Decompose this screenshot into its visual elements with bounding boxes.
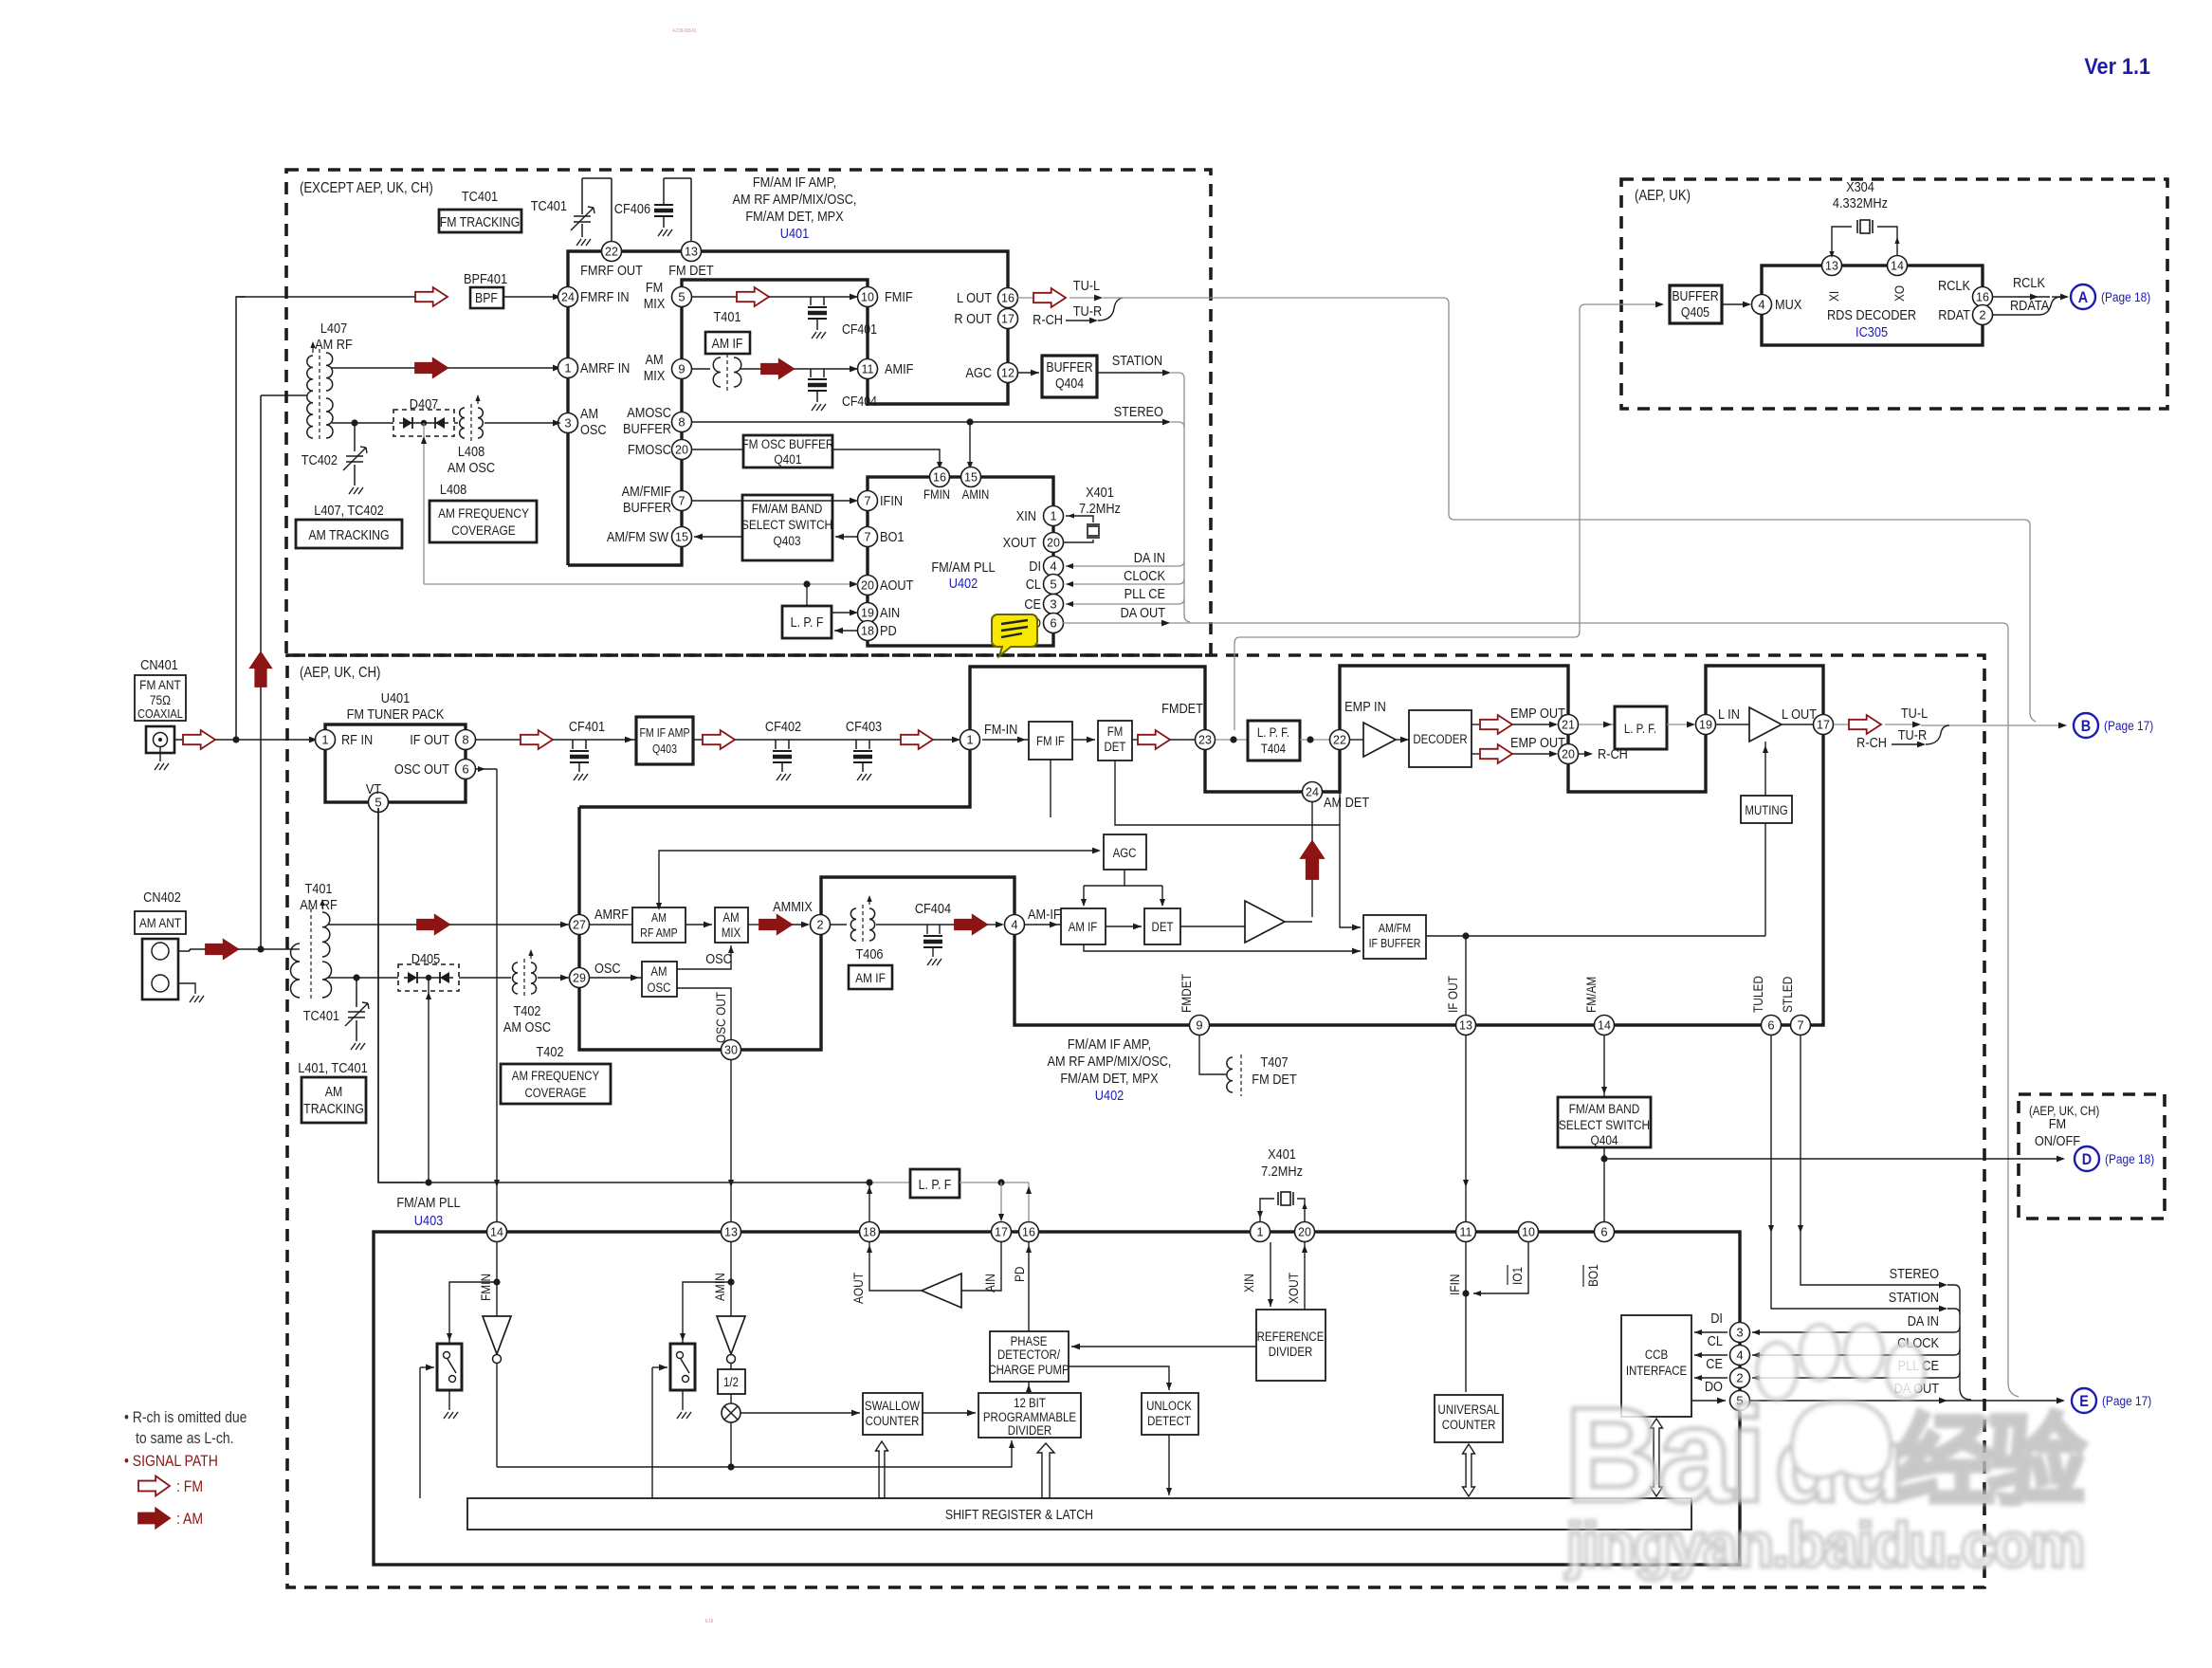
wire IFIN	[691, 500, 856, 502]
svg-text:BUFFER: BUFFER	[1672, 288, 1719, 303]
svg-text:4.332MHz: 4.332MHz	[1833, 194, 1888, 211]
svg-text:IFIN: IFIN	[880, 492, 903, 508]
svg-text:FM/AM PLL: FM/AM PLL	[931, 559, 995, 575]
pin 20 XOUT	[1295, 1222, 1315, 1242]
svg-text:REFERENCE: REFERENCE	[1257, 1329, 1325, 1344]
svg-text:R-CH: R-CH	[1856, 734, 1887, 750]
svg-text:X401: X401	[1268, 1146, 1296, 1162]
svg-text:XI: XI	[1826, 291, 1841, 302]
svg-text:FMIF: FMIF	[885, 288, 913, 304]
pin 17 AIN	[992, 1222, 1012, 1242]
svg-text:PROGRAMMABLE: PROGRAMMABLE	[983, 1410, 1076, 1424]
FMIN internal wire	[496, 1242, 498, 1316]
wire OSC OUT to PLL AMIN	[730, 1060, 732, 1221]
svg-text:Ver 1.1: Ver 1.1	[2084, 53, 2150, 79]
L OUT amp triangle	[1716, 724, 1749, 725]
shift register up arrow to swallow	[876, 1441, 888, 1498]
svg-text:FM/AM BAND: FM/AM BAND	[1569, 1101, 1640, 1116]
svg-text:XO: XO	[1892, 285, 1907, 302]
FM TRACKING box	[439, 210, 521, 232]
FM DET box	[1072, 739, 1095, 741]
STEREO wire top	[691, 421, 1168, 423]
svg-text:20: 20	[675, 444, 688, 457]
AM arrow to AMIF	[740, 368, 761, 370]
pin 4 DI	[1044, 557, 1064, 577]
svg-text:CF404: CF404	[915, 900, 951, 916]
svg-text:U402: U402	[1095, 1087, 1124, 1103]
wire L407 osc winding to D407	[332, 422, 393, 424]
svg-text:AOUT: AOUT	[850, 1273, 866, 1304]
AM IF box label T406	[849, 965, 892, 989]
svg-text:16: 16	[933, 471, 946, 485]
wire AM antenna entry top	[261, 394, 307, 396]
wire Q405 to MUX	[1722, 303, 1749, 305]
svg-text:12: 12	[1001, 367, 1015, 380]
AM MIX box	[686, 924, 712, 926]
DA OUT drop to E	[2002, 623, 2019, 1397]
pin 13 XI	[1822, 256, 1842, 276]
IO1 wire	[1473, 1242, 1528, 1293]
svg-text:AM: AM	[722, 910, 739, 925]
AM/FM IF BUFFER box	[1050, 760, 1051, 817]
svg-text:CF404: CF404	[842, 394, 877, 409]
svg-text:E: E	[2079, 1393, 2089, 1410]
svg-text:TU-L: TU-L	[1901, 705, 1929, 721]
svg-text:AMRF IN: AMRF IN	[580, 359, 630, 376]
long TU-L wire to B	[1103, 298, 2036, 722]
trimmer TC401 mid	[356, 978, 357, 1007]
pin 14 FMIN	[487, 1222, 507, 1242]
wire Q401 to FMIN	[832, 449, 940, 467]
buffer output to muting	[1426, 935, 1765, 937]
note icon yellow	[992, 614, 1037, 656]
svg-text:FM/AM IF AMP,: FM/AM IF AMP,	[753, 174, 836, 190]
svg-text:7.2MHz: 7.2MHz	[1079, 500, 1121, 516]
pin 15 AMIN top	[961, 467, 981, 487]
SHIFT REGISTER AND LATCH bar	[467, 1498, 1691, 1530]
pin 24 AM DET	[1303, 782, 1323, 802]
svg-text:AOUT: AOUT	[880, 577, 914, 593]
inverter 2	[717, 1316, 745, 1354]
svg-text:BO1: BO1	[1585, 1264, 1600, 1287]
FM arrow TU-L top	[1017, 297, 1033, 299]
svg-text:CL: CL	[1708, 1332, 1724, 1348]
svg-text:20: 20	[861, 579, 874, 593]
svg-text:FM: FM	[1107, 724, 1124, 739]
svg-text:DA IN: DA IN	[1134, 549, 1165, 565]
pin 4 AM-IF	[1005, 915, 1025, 935]
svg-text:11: 11	[1460, 1226, 1472, 1239]
pin 5 CL	[1044, 575, 1064, 595]
svg-text:RCLK: RCLK	[2013, 274, 2046, 290]
svg-text:IF BUFFER: IF BUFFER	[1369, 937, 1421, 950]
pin 7 STLED	[1791, 1016, 1811, 1036]
pin 23 FMDET	[1196, 730, 1216, 750]
svg-text:T402: T402	[537, 1043, 564, 1059]
svg-text:OSC: OSC	[594, 960, 621, 976]
svg-text:(AEP, UK): (AEP, UK)	[1635, 188, 1691, 204]
tuning voltage rail mid	[378, 1182, 869, 1183]
svg-text:TU-R: TU-R	[1898, 726, 1927, 742]
T407 FM DET coil	[1199, 1036, 1226, 1074]
svg-text:10: 10	[861, 291, 874, 304]
svg-text:7: 7	[864, 530, 870, 544]
pin 1 XIN	[1044, 506, 1064, 526]
capacitor CF406	[663, 178, 665, 204]
pin 17 L OUT	[1814, 715, 1834, 735]
svg-text:AM-IF: AM-IF	[1028, 906, 1061, 922]
svg-text:OSC OUT: OSC OUT	[713, 992, 728, 1043]
svg-text:TU-L: TU-L	[1073, 277, 1101, 293]
svg-text:7: 7	[1797, 1018, 1803, 1033]
pin 6 TULED	[1762, 1016, 1782, 1036]
svg-text:AM FREQUENCY: AM FREQUENCY	[438, 505, 529, 521]
STEREO wire mid	[1801, 1036, 1945, 1285]
svg-text:CF401: CF401	[569, 718, 605, 734]
svg-text:4: 4	[1758, 298, 1764, 312]
svg-text:L. P. F: L. P. F	[791, 614, 824, 630]
svg-text:COAXIAL: COAXIAL	[137, 706, 183, 721]
svg-text:T407: T407	[1261, 1054, 1289, 1070]
svg-text:15: 15	[964, 471, 978, 485]
svg-text:8: 8	[462, 733, 468, 747]
svg-text:AIN: AIN	[982, 1274, 997, 1292]
AM DET wire with up arrow	[1311, 802, 1313, 917]
svg-text:U401: U401	[381, 689, 411, 706]
svg-text:AM IF: AM IF	[1069, 920, 1098, 934]
svg-text:AMMIX: AMMIX	[773, 898, 813, 914]
svg-text:Bai: Bai	[1564, 1380, 1763, 1531]
connector E (Page 17)	[2072, 1388, 2096, 1413]
signal trunk vertical mid	[1959, 1291, 1961, 1388]
svg-text:PHASE: PHASE	[1011, 1334, 1048, 1348]
svg-text:AM/FM: AM/FM	[1379, 922, 1411, 935]
SWALLOW COUNTER box	[863, 1393, 923, 1435]
svg-text:L. P. F: L. P. F	[919, 1177, 952, 1192]
svg-text:L401, TC401: L401, TC401	[298, 1059, 368, 1075]
svg-text:5: 5	[1050, 577, 1056, 592]
svg-text:MIX: MIX	[644, 295, 666, 311]
IF OUT drop	[1465, 936, 1467, 1015]
AM FREQUENCY COVERAGE box mid	[501, 1064, 611, 1104]
ref divider to phase det	[1071, 1346, 1256, 1347]
svg-text:AM RF: AM RF	[315, 336, 353, 352]
svg-text:MIX: MIX	[722, 926, 741, 940]
svg-text:经验: 经验	[1896, 1407, 2086, 1517]
svg-text:FMDET: FMDET	[1179, 974, 1194, 1013]
svg-text:AMOSC: AMOSC	[627, 404, 671, 420]
svg-text:FMIN: FMIN	[478, 1274, 493, 1301]
U403 PLL block	[374, 1232, 1740, 1565]
svg-text:D: D	[2082, 1151, 2092, 1168]
region box (EXCEPT AEP, UK, CH)	[286, 170, 1211, 655]
svg-text:FM/AM PLL: FM/AM PLL	[396, 1194, 460, 1210]
FM signal arrow	[415, 287, 448, 306]
wire OSC OUT to PLL FMIN	[475, 768, 497, 770]
FM OSC BUFFER Q401 box	[743, 435, 832, 467]
legend FM arrow	[138, 1476, 170, 1496]
baidu watermark	[1564, 1325, 2086, 1580]
svg-text:TC401: TC401	[531, 197, 567, 213]
pin 6 OSC OUT	[456, 760, 476, 779]
pin 3 CE	[1044, 595, 1064, 614]
svg-text:BUFFER: BUFFER	[1046, 359, 1093, 375]
AGC input wire	[659, 851, 1098, 907]
svg-text:17: 17	[995, 1226, 1008, 1239]
U402 middle IC outline	[579, 666, 1823, 1050]
svg-text:VT: VT	[366, 780, 382, 797]
svg-text:(Page 18): (Page 18)	[2101, 289, 2150, 304]
wire AMIN drop	[969, 422, 971, 467]
pin 19 AIN	[858, 603, 878, 623]
L.P.F box top	[806, 584, 808, 606]
DECODER box	[1409, 710, 1472, 767]
svg-text:U403: U403	[414, 1212, 444, 1228]
svg-text:CF402: CF402	[765, 718, 801, 734]
FM arrow into FM-IN	[901, 730, 933, 749]
LPF to AIN	[832, 612, 856, 614]
svg-text:FM IF AMP: FM IF AMP	[639, 726, 689, 740]
svg-text:5: 5	[375, 796, 381, 810]
svg-text:7: 7	[678, 494, 685, 508]
phase det to unlock detect	[1069, 1366, 1169, 1390]
svg-text:12 BIT: 12 BIT	[1014, 1396, 1046, 1410]
svg-text:Q403: Q403	[652, 742, 677, 756]
svg-text:R OUT: R OUT	[954, 310, 992, 326]
pin 6 BO1	[1595, 1222, 1615, 1242]
UNIVERSAL COUNTER box	[1435, 1395, 1503, 1442]
pin 16 L OUT	[998, 288, 1018, 308]
wire T401 to AMRF 27	[328, 924, 417, 926]
svg-text:DIVIDER: DIVIDER	[1269, 1345, 1312, 1359]
PD to LPF	[834, 630, 858, 632]
AM OSC box	[590, 977, 642, 979]
pin 13 AMIN	[722, 1222, 741, 1242]
svg-text:1: 1	[966, 733, 973, 747]
pin 7 AM/FMIF BUFFER	[672, 491, 692, 511]
wire to connector B	[1921, 724, 2065, 726]
svg-text:to same as L-ch.: to same as L-ch.	[136, 1430, 234, 1447]
trimmer TC401 top	[581, 178, 583, 214]
wire divider chain	[497, 1440, 1012, 1467]
pin 1 XIN	[1251, 1222, 1271, 1242]
svg-text:FM IF: FM IF	[1036, 734, 1065, 748]
svg-text:DI: DI	[1029, 558, 1041, 574]
svg-text:14: 14	[490, 1226, 503, 1239]
pin 16 RCLK	[1973, 287, 1993, 307]
AM RF AMP box	[590, 924, 632, 926]
svg-text:AGC: AGC	[1113, 846, 1137, 860]
svg-text:MUTING: MUTING	[1745, 803, 1787, 817]
svg-text:TULED: TULED	[1750, 976, 1765, 1013]
switch S2	[683, 1282, 731, 1344]
svg-text:FMRF IN: FMRF IN	[580, 288, 630, 304]
svg-text:AMIF: AMIF	[885, 360, 913, 376]
AM arrow into 27	[417, 915, 449, 934]
svg-text:T401: T401	[714, 308, 741, 324]
svg-text:DA IN: DA IN	[1908, 1312, 1939, 1329]
svg-text:TU-R: TU-R	[1073, 302, 1102, 319]
AM FREQUENCY COVERAGE box top	[430, 501, 537, 542]
svg-text:TC401: TC401	[303, 1007, 339, 1023]
svg-text:COUNTER: COUNTER	[1442, 1418, 1496, 1432]
pin 13 IF OUT	[1456, 1016, 1476, 1036]
svg-text:FMRF OUT: FMRF OUT	[580, 262, 643, 278]
FM IF AMP Q403 box mid	[636, 717, 693, 764]
svg-text:AM OSC: AM OSC	[503, 1018, 551, 1035]
pin 1 AMRF IN	[558, 358, 578, 378]
svg-text:ON/OFF: ON/OFF	[2035, 1132, 2080, 1148]
svg-text:OSC OUT: OSC OUT	[394, 761, 449, 777]
svg-text:4-239-028-01: 4-239-028-01	[672, 28, 697, 33]
svg-text:SWALLOW: SWALLOW	[865, 1399, 920, 1413]
svg-text:T402: T402	[513, 1002, 540, 1018]
wire LPF T404 to 22	[1300, 739, 1329, 741]
PHASE DETECTOR CHARGE PUMP box	[990, 1331, 1069, 1382]
svg-text:STEREO: STEREO	[1890, 1265, 1940, 1281]
svg-text:X401: X401	[1086, 484, 1114, 500]
svg-text:8: 8	[678, 415, 685, 430]
svg-text:CN402: CN402	[143, 889, 181, 905]
pin 22	[1330, 730, 1350, 750]
pin 11 IFIN	[1456, 1222, 1476, 1242]
FM arrow mid antenna	[183, 730, 215, 749]
svg-text:L. P. F.: L. P. F.	[1257, 725, 1289, 740]
transformer L408 AM OSC	[460, 408, 465, 438]
wire AM antenna up to top section	[260, 395, 262, 949]
AOUT tuning wire	[424, 583, 858, 585]
TU-R curl	[1066, 320, 1093, 321]
svg-text:CE: CE	[1024, 596, 1041, 612]
svg-text:CF406: CF406	[614, 200, 650, 216]
FMDET arrow	[1132, 739, 1138, 741]
region box (AEP, UK) RDS	[1621, 179, 2167, 409]
L.P.F. T404 box	[1248, 721, 1300, 761]
svg-text:AMIN: AMIN	[712, 1273, 727, 1301]
svg-text:BO1: BO1	[880, 528, 905, 544]
svg-text:3: 3	[1736, 1326, 1743, 1340]
svg-text:B: B	[2081, 718, 2091, 735]
AM TRACKING box mid	[302, 1077, 366, 1123]
inverter 1	[483, 1316, 511, 1354]
FM/AM BAND SELECT SWITCH Q403 box	[742, 495, 832, 560]
wire MPX to buffer Q405	[1234, 304, 1661, 730]
svg-text:COVERAGE: COVERAGE	[451, 522, 516, 538]
svg-text:4: 4	[1736, 1348, 1743, 1363]
svg-text:AM RF AMP/MIX/OSC,: AM RF AMP/MIX/OSC,	[1048, 1053, 1172, 1069]
svg-text:FM: FM	[646, 279, 663, 295]
svg-text:RF AMP: RF AMP	[640, 926, 678, 940]
svg-text:XIN: XIN	[1016, 507, 1036, 523]
svg-text:MUX: MUX	[1775, 296, 1801, 312]
svg-text:PLL CE: PLL CE	[1124, 585, 1165, 601]
svg-text:(EXCEPT AEP, UK, CH): (EXCEPT AEP, UK, CH)	[300, 180, 433, 196]
svg-text:2: 2	[816, 918, 823, 932]
svg-text:3: 3	[1050, 597, 1056, 612]
svg-text:10: 10	[1522, 1226, 1535, 1239]
svg-text:Q401: Q401	[774, 451, 801, 467]
pin 5 FM MIX	[672, 287, 692, 307]
svg-text:DET: DET	[1152, 920, 1174, 934]
pin 2 AMMIX	[811, 915, 831, 935]
svg-text:AM FREQUENCY: AM FREQUENCY	[512, 1069, 600, 1083]
RDS DECODER IC305 block	[1762, 266, 1983, 345]
svg-text:U401: U401	[780, 225, 810, 241]
pin 21 EMP OUT	[1559, 715, 1579, 735]
svg-text:(Page 18): (Page 18)	[2105, 1151, 2154, 1166]
svg-text:DA OUT: DA OUT	[1121, 604, 1166, 620]
pin 18 PD	[858, 621, 878, 641]
region box (AEP, UK, CH) main	[287, 655, 1984, 1587]
AM arrow into AM-IF	[955, 915, 987, 934]
svg-text:R-CH: R-CH	[1033, 311, 1063, 327]
svg-text:: FM: : FM	[176, 1478, 203, 1495]
pin 9 FMDET	[1190, 1016, 1210, 1036]
pin 20 XOUT	[1044, 533, 1064, 553]
svg-text:TC401: TC401	[462, 188, 498, 204]
svg-text:FM TUNER PACK: FM TUNER PACK	[347, 706, 446, 722]
BUFFER Q404 box	[1042, 356, 1097, 397]
svg-text:13: 13	[724, 1226, 738, 1239]
svg-text:BUFFER: BUFFER	[623, 420, 671, 436]
svg-text:RDS DECODER: RDS DECODER	[1827, 306, 1916, 322]
svg-text:AMRF: AMRF	[594, 906, 629, 922]
svg-text:IC305: IC305	[1856, 323, 1888, 339]
pin 20 AOUT	[858, 576, 878, 596]
svg-text:SELECT SWITCH: SELECT SWITCH	[1559, 1117, 1650, 1132]
pin 16 FMIN top	[930, 467, 950, 487]
svg-text:7.2MHz: 7.2MHz	[1261, 1163, 1303, 1179]
UNLOCK DETECT box	[1142, 1393, 1198, 1435]
divider 1/2 box	[730, 1364, 732, 1369]
FM arrow TU-L mid	[1834, 724, 1849, 725]
svg-text:DETECT: DETECT	[1147, 1414, 1191, 1428]
pin 20 FMOSC	[672, 440, 692, 460]
svg-text:FM ANT: FM ANT	[139, 677, 181, 692]
svg-text:RDATA: RDATA	[2010, 297, 2050, 313]
svg-text:STEREO: STEREO	[1114, 403, 1164, 419]
svg-text:AM/FMIF: AM/FMIF	[622, 483, 671, 499]
svg-text:9: 9	[678, 362, 685, 376]
transformer T406	[831, 924, 847, 926]
svg-text:(Page 17): (Page 17)	[2104, 718, 2153, 733]
pin 29 OSC	[570, 968, 590, 988]
universal counter shift arrow	[1463, 1444, 1475, 1496]
svg-text:DI: DI	[1710, 1310, 1723, 1326]
L.P.F. box right	[1579, 724, 1615, 725]
wire LPF to AIN	[1000, 1182, 1002, 1219]
wire L407 to AMRF	[332, 367, 334, 369]
pin 12 AGC	[998, 363, 1018, 383]
svg-text:4: 4	[1011, 918, 1017, 932]
svg-text:• SIGNAL PATH: • SIGNAL PATH	[124, 1453, 218, 1470]
AM arrow mid antenna	[206, 940, 238, 959]
switch S1	[449, 1282, 497, 1344]
svg-text:: AM: : AM	[176, 1511, 203, 1528]
svg-text:• R-ch is omitted due: • R-ch is omitted due	[124, 1409, 247, 1426]
svg-text:13: 13	[1825, 260, 1838, 273]
svg-text:STLED: STLED	[1780, 977, 1795, 1013]
svg-text:15: 15	[675, 531, 688, 544]
svg-text:20: 20	[1562, 748, 1575, 761]
svg-text:22: 22	[1333, 734, 1346, 747]
svg-text:16: 16	[1976, 291, 1989, 304]
svg-text:OSC: OSC	[648, 981, 671, 995]
svg-text:STATION: STATION	[1112, 352, 1162, 368]
svg-text:CLOCK: CLOCK	[1124, 567, 1166, 583]
pin 15 AM/FM SW	[672, 527, 692, 547]
AM IF box inner	[1025, 924, 1061, 926]
